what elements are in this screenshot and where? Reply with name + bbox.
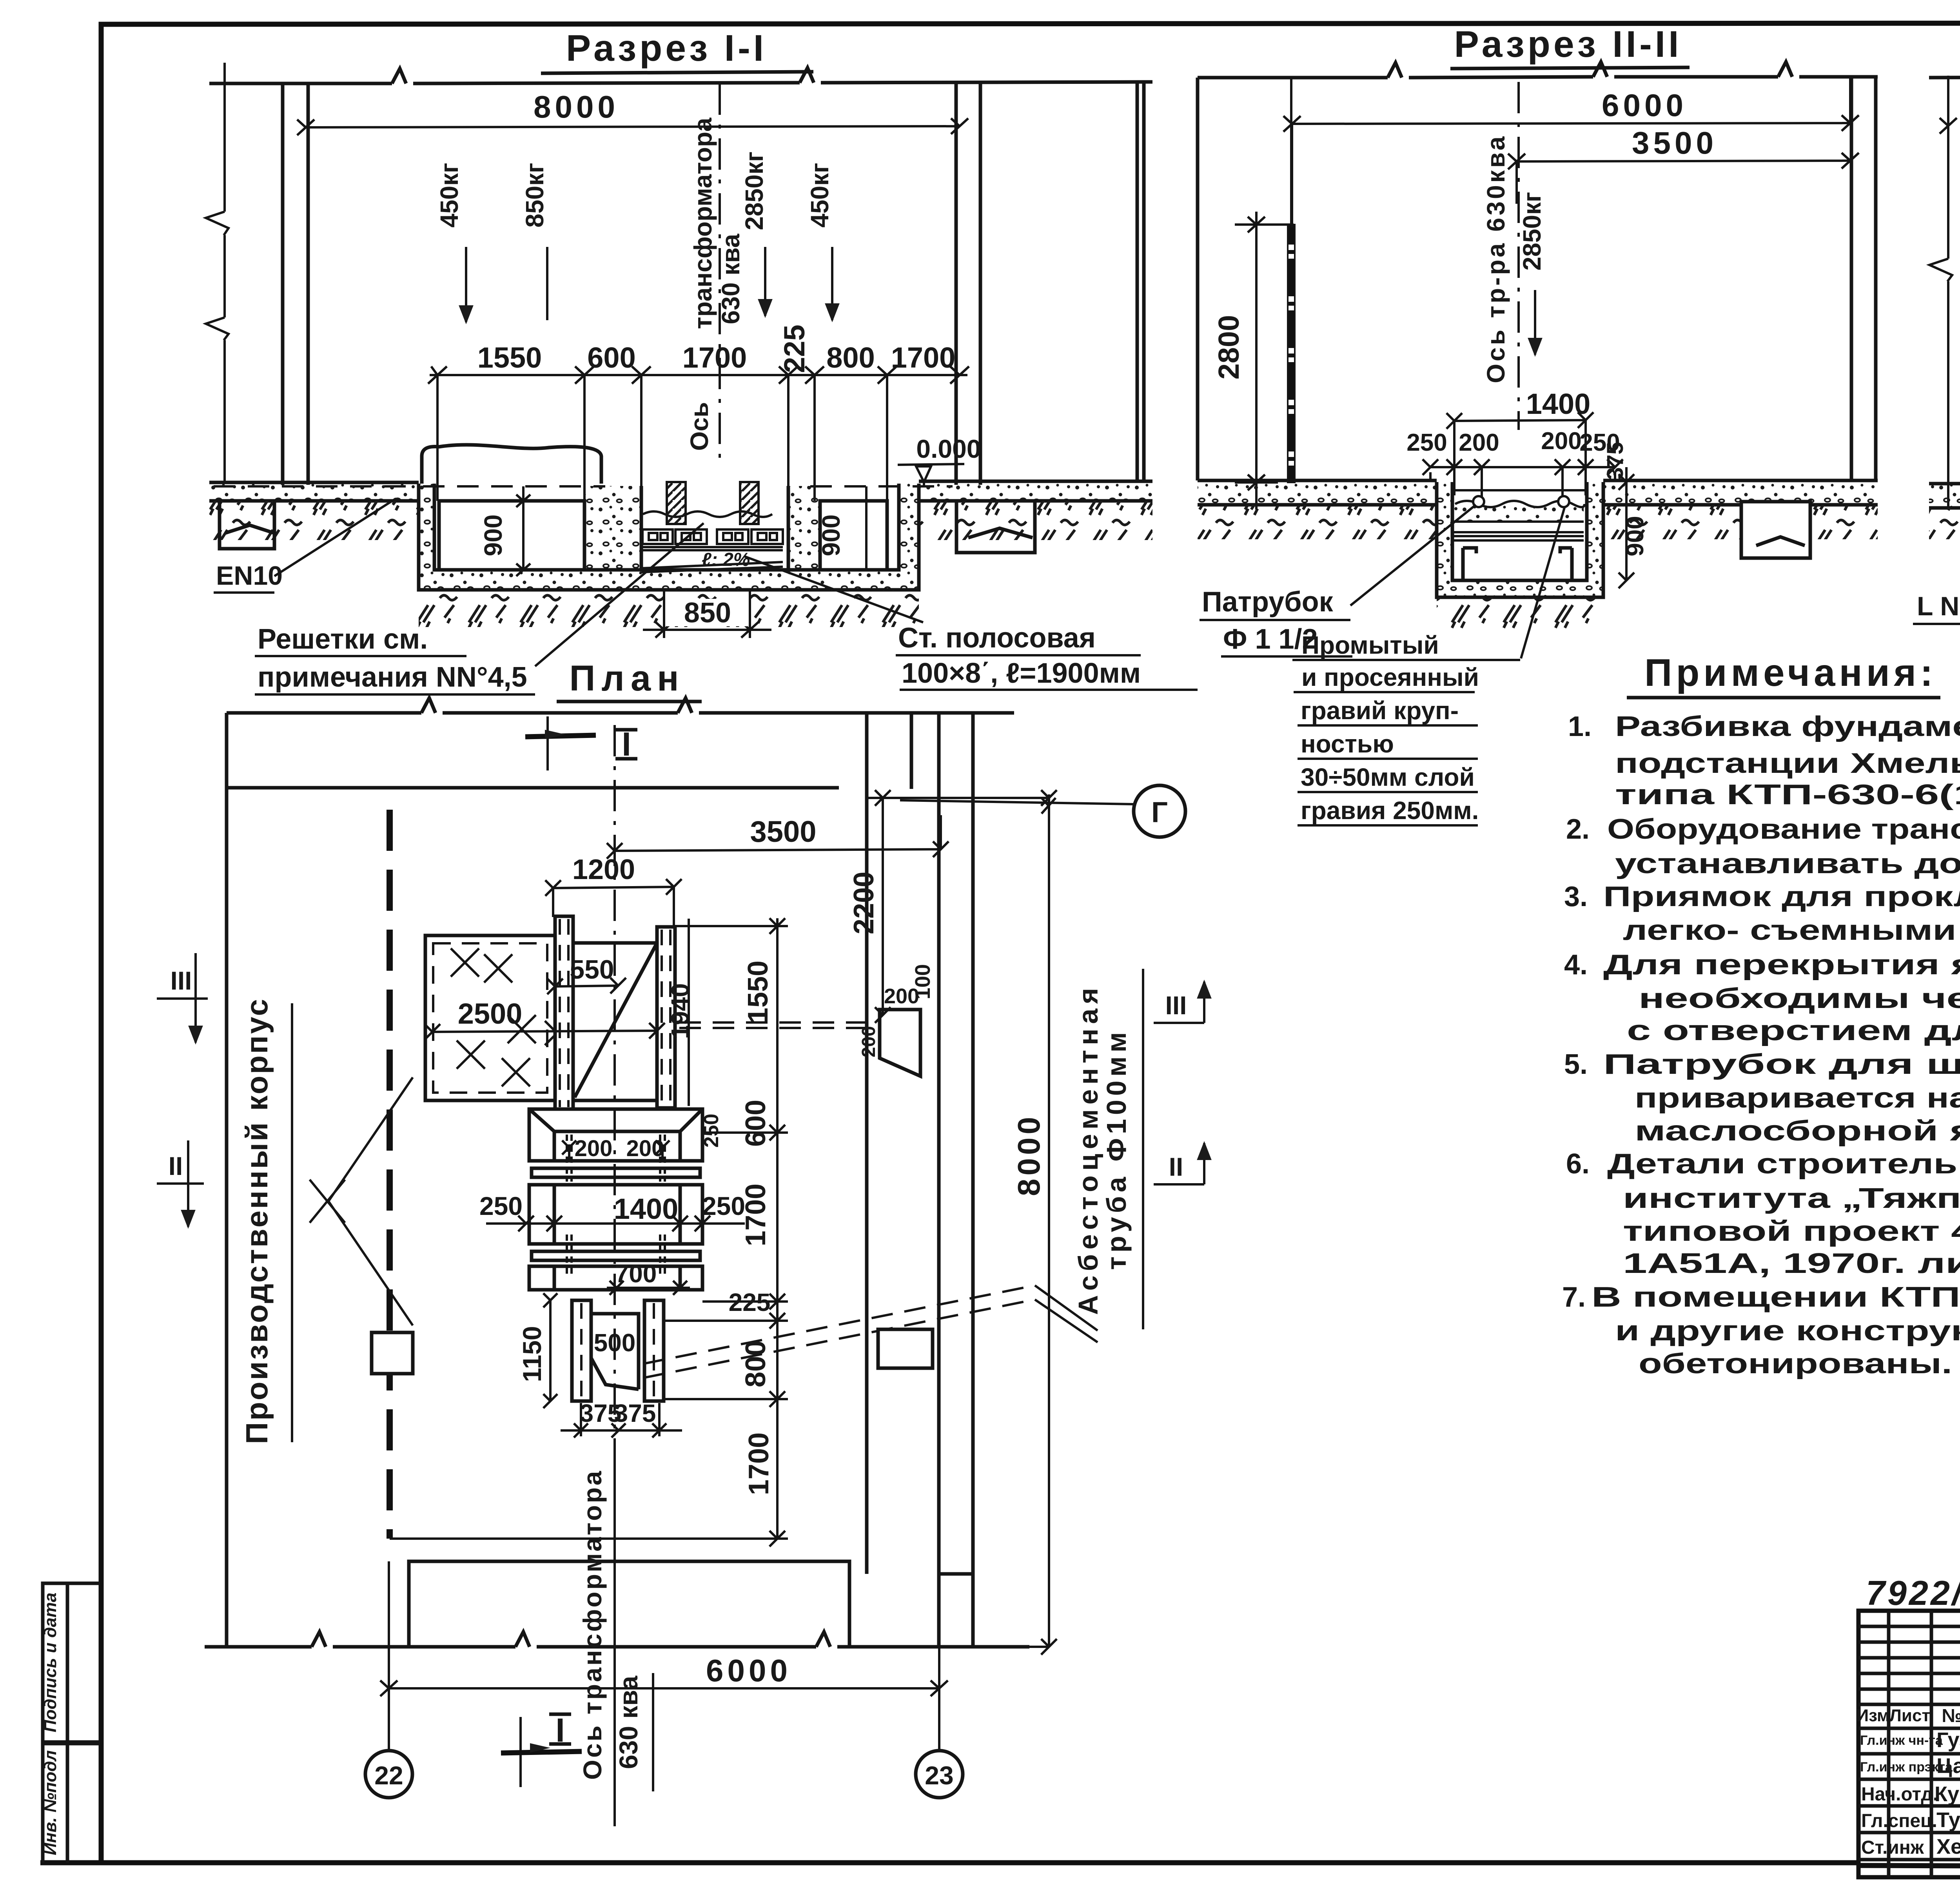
svg-text:500: 500 [594,1329,636,1357]
svg-text:600: 600 [740,1100,771,1147]
svg-text:6000: 6000 [1602,88,1687,123]
svg-text:устанавливать до установки: устанавливать до установки ограждения. [1615,848,1960,879]
svg-text:подстанции Хмельницкого за: подстанции Хмельницкого завода [1615,748,1960,779]
svg-text:Гузенко: Гузенко [1936,1728,1960,1752]
svg-text:Ось: Ось [685,402,713,451]
svg-text:Ось трансформатора: Ось трансформатора [578,1469,607,1780]
svg-text:200: 200 [575,1136,613,1161]
svg-text:легко- съемными железобетон: легко- съемными железобетонными плитами. [1623,915,1960,946]
svg-text:обетонированы.: обетонированы. [1639,1348,1952,1380]
svg-text:1.: 1. [1568,711,1592,742]
svg-text:3500: 3500 [750,815,816,848]
svg-text:850кг: 850кг [521,163,549,227]
svg-text:1400: 1400 [614,1193,679,1225]
svg-text:22: 22 [374,1761,403,1790]
svg-text:1150: 1150 [517,1326,546,1382]
svg-text:ностью: ностью [1301,730,1394,758]
svg-text:2800: 2800 [1212,315,1245,380]
svg-text:Гл.инж чн-та: Гл.инж чн-та [1860,1733,1943,1748]
svg-text:6.: 6. [1566,1148,1590,1180]
svg-text:ℓ: 2%: ℓ: 2% [702,549,750,570]
svg-text:института „Тяжпромэлектропро: института „Тяжпромэлектропроект” [1623,1183,1960,1214]
svg-text:труба Ф100мм: труба Ф100мм [1101,1028,1132,1270]
svg-text:1940: 1940 [666,983,694,1039]
svg-text:Изм: Изм [1857,1706,1890,1725]
svg-text:4.: 4. [1564,949,1588,981]
svg-text:600: 600 [587,341,635,374]
svg-text:Лист: Лист [1889,1706,1930,1725]
svg-text:Приямок для прокладки кабел: Приямок для прокладки кабелей перекрыть [1603,881,1960,912]
svg-text:Примечания:: Примечания: [1644,651,1937,694]
svg-text:1200: 1200 [572,854,635,885]
svg-text:Асбестоцементная: Асбестоцементная [1073,983,1103,1315]
svg-text:630 ква: 630 ква [614,1675,643,1769]
svg-text:гравий круп-: гравий круп- [1301,696,1459,725]
svg-text:2500: 2500 [458,997,523,1030]
svg-text:7922/9: 7922/9 [1866,1574,1960,1612]
svg-text:II: II [169,1151,183,1180]
svg-text:План: План [569,658,685,698]
svg-text:необходимы четыре решетки,: необходимы четыре решетки, одна из них [1639,983,1960,1014]
svg-text:II: II [1169,1152,1183,1181]
svg-text:30÷50мм слой: 30÷50мм слой [1301,763,1475,791]
svg-text:800: 800 [740,1340,771,1387]
svg-text:Патрубок для шланга для: Патрубок для шланга для удаления масла [1603,1049,1960,1080]
svg-text:Инв. №подл: Инв. №подл [41,1750,60,1855]
svg-text:800: 800 [826,341,875,374]
svg-text:Патрубок: Патрубок [1202,586,1334,618]
svg-text:Подпись и дата: Подпись и дата [41,1593,60,1733]
svg-text:225: 225 [778,324,811,373]
svg-text:1550: 1550 [477,341,542,374]
svg-text:450кг: 450кг [435,163,463,227]
svg-text:Хейфец: Хейфец [1936,1835,1960,1858]
svg-text:1700: 1700 [682,341,747,374]
svg-text:200: 200 [626,1136,664,1161]
svg-text:630 ква: 630 ква [717,234,745,324]
svg-text:и другие конструкции долж: и другие конструкции должны быть [1615,1315,1960,1347]
svg-text:23: 23 [925,1761,953,1790]
svg-text:250: 250 [700,1114,723,1148]
svg-text:Разбивка фундаментов при: Разбивка фундаментов принята для [1615,711,1960,742]
svg-text:типа КТП-630-6(10)/0,4 кВ.: типа КТП-630-6(10)/0,4 кВ. [1615,779,1960,810]
svg-text:2200: 2200 [848,872,880,934]
svg-text:Для перекрытия ямы под: Для перекрытия ямы под трансформатором [1603,949,1960,981]
svg-text:маслосборной ямы после уста: маслосборной ямы после установки решетки… [1635,1115,1960,1147]
svg-text:Оборудование трансформаторной: Оборудование трансформаторной подстанции [1607,814,1960,845]
svg-text:100: 100 [911,964,935,999]
svg-text:250: 250 [1406,429,1447,456]
svg-text:ЕN10: ЕN10 [216,561,283,591]
svg-text:2850кг: 2850кг [1518,192,1546,270]
svg-text:8000: 8000 [1011,1114,1046,1196]
svg-text:3500: 3500 [1632,125,1717,160]
svg-text:5.: 5. [1564,1049,1588,1080]
svg-text:Нач.отд.: Нач.отд. [1861,1784,1938,1805]
svg-text:приваривается над углубленн: приваривается над углубленной частью [1635,1082,1960,1114]
svg-text:6000: 6000 [706,1653,791,1688]
svg-text:Ось тр-ра 630ква: Ось тр-ра 630ква [1482,134,1510,383]
svg-text:1А51А, 1970г. лист 1А51.64: 1А51А, 1970г. лист 1А51.64 и 1А51.69. [1623,1248,1960,1279]
svg-text:L N5: L N5 [1917,591,1960,621]
svg-text:2.: 2. [1566,814,1590,845]
svg-text:III: III [1165,991,1187,1020]
svg-text:и просеянный: и просеянный [1301,663,1479,691]
svg-text:8000: 8000 [534,89,619,124]
svg-text:1400: 1400 [1526,388,1591,420]
svg-text:1700: 1700 [891,341,956,374]
svg-text:Промытый: Промытый [1301,631,1439,659]
svg-text:375: 375 [1602,442,1628,480]
svg-text:№ докум.: № докум. [1942,1706,1960,1726]
svg-text:Гл.спец.: Гл.спец. [1861,1811,1937,1831]
svg-text:1550: 1550 [742,961,774,1023]
svg-text:100×8΄, ℓ=1900мм: 100×8΄, ℓ=1900мм [902,658,1141,689]
svg-text:450кг: 450кг [806,163,834,227]
svg-text:0.000: 0.000 [916,434,981,463]
svg-text:550: 550 [570,955,614,984]
svg-text:типовой проект 4-407-90. Вы: типовой проект 4-407-90. Выпуск 1 шифр [1623,1216,1960,1247]
svg-text:250: 250 [479,1191,523,1220]
svg-text:200: 200 [1459,429,1499,456]
svg-text:Г: Г [1151,796,1168,828]
svg-text:Туркин: Туркин [1936,1808,1960,1832]
svg-text:Разрез II-II: Разрез II-II [1454,24,1682,65]
svg-text:Детали строительной части: Детали строительной части см. альбом. [1607,1148,1960,1180]
svg-text:3.: 3. [1564,881,1588,912]
svg-text:гравия 250мм.: гравия 250мм. [1301,796,1479,825]
svg-text:900: 900 [817,515,845,557]
svg-text:Разрез I-I: Разрез I-I [566,27,767,69]
svg-text:Решетки см.: Решетки см. [258,624,428,655]
svg-text:200: 200 [858,1026,879,1057]
svg-text:III: III [170,966,192,995]
svg-text:225: 225 [729,1288,771,1316]
svg-text:Кувшинский: Кувшинский [1935,1782,1960,1806]
svg-text:с отверстием для шланга.: с отверстием для шланга. [1627,1015,1960,1046]
svg-text:850: 850 [684,597,731,629]
svg-text:Царев: Царев [1936,1754,1960,1778]
svg-text:1700: 1700 [743,1432,775,1495]
svg-text:Ст.инж: Ст.инж [1861,1837,1924,1858]
svg-text:7.: 7. [1562,1282,1586,1313]
svg-text:Ст. полосовая: Ст. полосовая [898,622,1096,654]
svg-text:трансформатора: трансформатора [689,118,717,329]
svg-text:примечания NN°4,5: примечания NN°4,5 [258,662,527,693]
svg-text:Производственный корпус: Производственный корпус [240,997,274,1444]
svg-text:2850кг: 2850кг [740,151,768,230]
svg-text:1700: 1700 [740,1184,771,1246]
svg-text:200: 200 [1541,428,1581,455]
svg-text:375: 375 [614,1399,656,1427]
svg-text:900: 900 [479,515,507,557]
svg-text:В помещении КТП металлически: В помещении КТП металлические колонны [1592,1282,1960,1313]
